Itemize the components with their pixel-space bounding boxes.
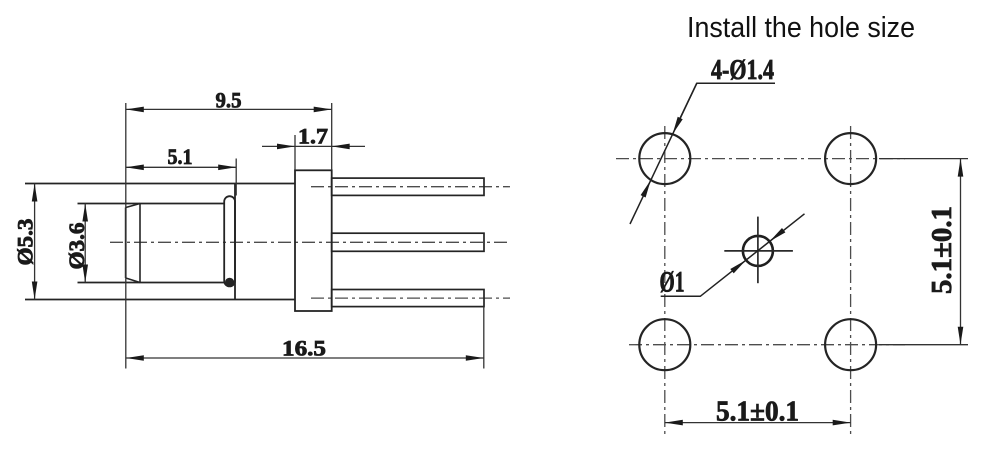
body outer diameter lines (5.3) with extension to left xyxy=(25,184,295,300)
dimension 1.7 arrows xyxy=(277,144,350,150)
top pin centerline xyxy=(311,186,510,188)
svg-text:9.5: 9.5 xyxy=(216,88,242,113)
hole top-right xyxy=(825,133,876,184)
dimension 5.1 arrows xyxy=(126,165,236,171)
dimension vertical 5.1 line xyxy=(960,159,962,345)
main axis centerline xyxy=(110,241,511,243)
pin 3 bottom xyxy=(332,290,484,307)
svg-text:Ø3.6: Ø3.6 xyxy=(64,223,89,270)
svg-text:Install the hole size: Install the hole size xyxy=(687,12,915,44)
svg-text:Ø1: Ø1 xyxy=(660,266,685,299)
svg-text:5.1: 5.1 xyxy=(168,144,193,169)
dimension vertical 5.1 arrows xyxy=(958,159,964,345)
horizontal centerline bottom row xyxy=(629,344,905,346)
extension line right of 5.1 xyxy=(235,159,237,196)
vertical centerline left column xyxy=(664,126,666,438)
leader arrow upper-right at center hole xyxy=(770,228,786,241)
leader diagonal through top-left hole xyxy=(630,83,697,224)
dimension dia 5.3 line xyxy=(34,184,36,300)
center hole xyxy=(743,236,773,266)
dimension dia 3.6 line xyxy=(84,204,86,283)
vertical centerline right column xyxy=(850,126,852,438)
leader arrow upper at hole edge xyxy=(673,117,683,135)
extension line right of 16.5 xyxy=(483,307,485,369)
bottom pin centerline xyxy=(311,297,510,299)
svg-text:5.1±0.1: 5.1±0.1 xyxy=(927,206,958,294)
svg-text:4-Ø1.4: 4-Ø1.4 xyxy=(711,55,774,86)
barrel chamfer bottom xyxy=(126,278,140,283)
center hole crosshair vertical xyxy=(757,217,759,284)
center hole crosshair horizontal xyxy=(724,250,793,252)
leader arrow lower at hole edge xyxy=(641,180,651,198)
gasket bottom blob xyxy=(225,278,234,287)
dimension 1.7 line xyxy=(262,145,365,147)
dimension dia 5.3 arrows xyxy=(32,184,38,300)
hole bottom-right xyxy=(825,319,876,370)
svg-text:1.7: 1.7 xyxy=(298,124,328,149)
extension line right bottom xyxy=(879,344,968,346)
extension line left of 1.7 xyxy=(294,135,296,170)
svg-text:Ø5.3: Ø5.3 xyxy=(13,219,38,266)
barrel chamfer top xyxy=(126,204,140,208)
extension line right of 9.5 xyxy=(331,103,333,170)
dimension 9.5 arrows xyxy=(126,107,332,113)
dimension bottom 5.1 line xyxy=(665,422,851,424)
mounting body 1.7 rect xyxy=(295,170,332,311)
pin 1 top xyxy=(332,178,484,195)
dimension dia 3.6 arrows xyxy=(82,204,88,283)
flange left edge xyxy=(234,184,236,300)
extension line left (shared 9.5/5.1/16.5) xyxy=(125,103,127,369)
pin 2 middle xyxy=(332,233,484,251)
label 4-dia1.4 underline xyxy=(675,83,775,129)
dimension 5.1 line xyxy=(126,166,236,168)
dimension 9.5 line xyxy=(126,108,332,110)
horizontal centerline top row xyxy=(616,158,905,160)
barrel left face xyxy=(125,208,127,279)
gasket stadium xyxy=(224,196,235,286)
hole top-left xyxy=(639,133,690,184)
svg-text:16.5: 16.5 xyxy=(282,336,326,361)
extension line right top xyxy=(879,158,968,160)
svg-text:5.1±0.1: 5.1±0.1 xyxy=(716,397,799,428)
dimension 16.5 arrows xyxy=(126,355,484,361)
dimension bottom 5.1 arrows xyxy=(665,420,851,426)
hole bottom-left xyxy=(639,319,690,370)
leader arrow lower-left at center hole xyxy=(730,260,746,273)
dimension 16.5 line xyxy=(126,357,484,359)
label dia1 underline and elbow xyxy=(661,214,805,296)
barrel outer lines (3.6) with extension to left xyxy=(78,204,225,283)
barrel chamfer edge xyxy=(139,204,141,283)
